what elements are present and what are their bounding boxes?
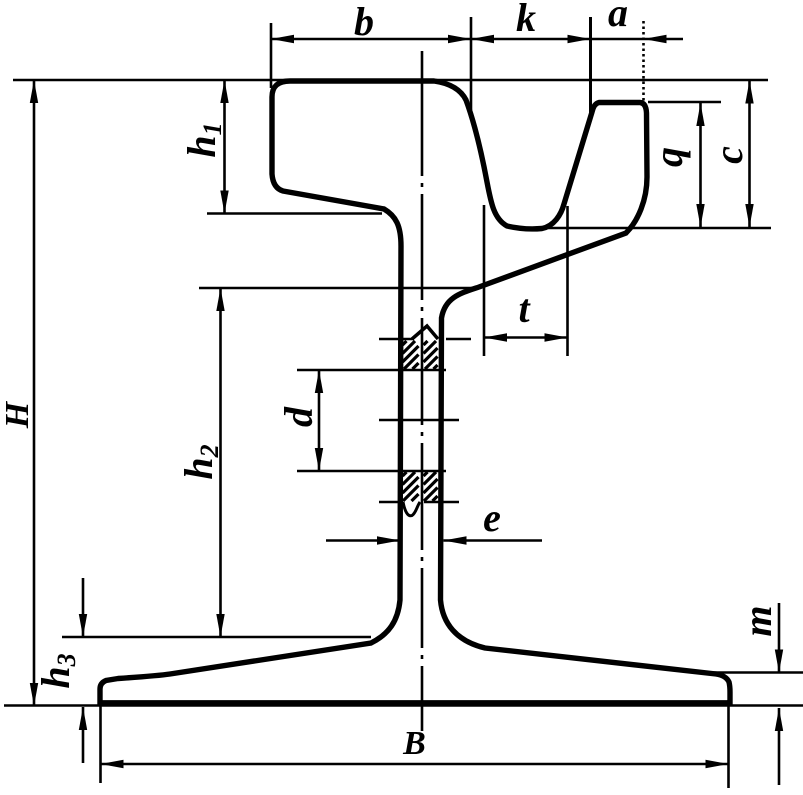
h2/h3 shared extension line (foot top) [62,636,371,639]
bolt hole centre line across web [379,419,459,422]
svg-text:h1: h1 [179,122,227,157]
svg-text:B: B [402,725,426,762]
arrowheads b [271,35,294,43]
groove bottom extension line [522,227,771,230]
svg-text:H: H [0,400,36,429]
dimension c line [748,81,751,228]
svg-text:d: d [276,406,321,427]
arrowhead a (from right, outside) [644,35,667,43]
dimension b extension line (head left) [270,23,273,88]
dimension h3 lower arrow [82,707,85,763]
dimension a right extension line (dotted) [642,21,645,102]
dimension e left arrow [326,539,400,542]
hatching of web section cells [403,341,407,345]
lip top extension line [648,101,721,104]
dimension m top extension line [695,671,803,674]
dimension h1 line [223,80,226,214]
svg-text:t: t [518,286,531,331]
svg-text:k: k [516,0,536,40]
dimension k/a shared extension line [589,17,592,118]
dimension b/k shared extension line [470,17,473,110]
bolt hole bottom extension line [297,470,446,473]
dimension t right extension line [566,206,569,356]
svg-text:b: b [354,0,374,44]
dimension B line [101,763,729,766]
top dimension line b-k-a [271,38,683,41]
web section upper boundary line [379,338,414,341]
top datum line (rail head top level) [13,79,768,82]
dimension h2 line [219,288,222,637]
web section break squiggle (lower) [403,502,420,516]
rail profile outline [100,81,730,703]
dimension h1 extension line (head underside) [207,212,382,215]
dimension h3 upper arrow [82,578,85,637]
bolt hole top extension line [297,369,446,372]
dimension m lower arrow [778,708,781,785]
center line of rail (dash-dot) [421,51,424,731]
dimension h2 top extension line [199,287,474,290]
dimension t left extension line [483,205,486,356]
web section break zigzag (upper) [412,326,438,339]
web section lower boundary line [379,501,403,504]
svg-text:m: m [735,605,780,636]
foot bottom datum line [4,704,803,707]
dimension d line [318,370,321,471]
dimension H line [33,80,36,706]
svg-text:e: e [483,495,501,540]
svg-text:q: q [646,147,691,167]
dimension B left extension line (foot left edge) [99,706,102,783]
svg-text:c: c [706,146,751,164]
svg-text:h3: h3 [33,653,81,688]
dimension m upper arrow [778,603,781,673]
dimension t line [484,336,568,339]
dimension e right arrow [444,539,543,542]
arrowheads k [471,35,494,43]
svg-text:h2: h2 [176,444,224,479]
dimension q line [699,103,702,227]
foot bottom thick edge overlay [100,700,730,706]
svg-text:a: a [608,0,628,35]
dimension B right extension line (foot right edge) [727,700,730,788]
